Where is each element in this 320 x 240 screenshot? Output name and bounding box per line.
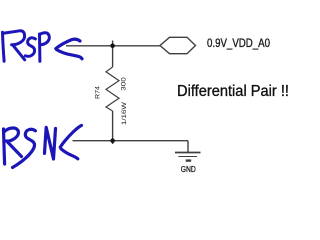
svg-text:Differential Pair !!: Differential Pair !! bbox=[177, 83, 289, 100]
svg-text:0.9V_VDD_A0: 0.9V_VDD_A0 bbox=[207, 36, 270, 50]
svg-text:GND: GND bbox=[181, 164, 196, 174]
svg-text:R74: R74 bbox=[94, 86, 101, 99]
svg-text:1/16W: 1/16W bbox=[121, 102, 128, 125]
svg-text:300: 300 bbox=[119, 77, 127, 91]
